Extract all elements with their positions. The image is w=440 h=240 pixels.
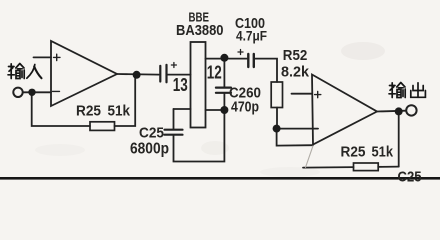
wire IC right pin lower: [206, 109, 225, 111]
junction node F output: [395, 107, 403, 115]
capacitor C25 top lead: [173, 109, 175, 129]
wire op-amp U1 output: [117, 73, 159, 76]
IC U2 BA3880 body: [191, 42, 206, 128]
capacitor C260 plates: [216, 88, 231, 93]
svg-text:R52: R52: [283, 48, 308, 64]
wire op-amp U3 output: [377, 110, 406, 113]
wire minus input op-amp U3: [277, 128, 318, 130]
label 输出 (output) drawn as strokes: [389, 83, 425, 98]
capacitor C25 bottom lead: [174, 110, 225, 162]
capacitor C260 top lead: [223, 59, 225, 87]
junction node B op-amp1 output: [133, 71, 141, 79]
capacitor C100 plates: [248, 54, 254, 67]
wire IC pin12: [206, 58, 225, 60]
op-amp U3 plus sign: [315, 92, 321, 98]
output terminal circle: [406, 105, 416, 115]
char 出: [411, 83, 426, 98]
svg-text:4.7μF: 4.7μF: [236, 28, 267, 44]
op-amp U3: [312, 75, 377, 145]
op-amp U1: [51, 41, 117, 106]
capacitor C260 bottom lead: [223, 93, 225, 110]
junction node A: [28, 89, 35, 96]
op-amp U1 plus sign: [54, 54, 61, 60]
wire IC left pin lower: [174, 108, 191, 110]
svg-text:470p: 470p: [231, 99, 259, 116]
svg-text:6800p: 6800p: [130, 141, 169, 158]
resistor R52 body: [271, 82, 282, 108]
wire R52 to minus node: [276, 108, 278, 129]
faint connector vertex to feedback: [306, 146, 314, 168]
char 入: [27, 65, 42, 79]
svg-text:BA3880: BA3880: [176, 22, 224, 39]
bottom scan border: [0, 177, 440, 180]
input terminal circle: [13, 88, 22, 97]
junction node D C260 bottom: [220, 106, 228, 114]
resistor R25 right body: [354, 163, 379, 171]
wire node to C100: [224, 58, 247, 60]
wire R25 to output node: [115, 75, 136, 126]
label 输入 (input) drawn as strokes: [8, 64, 42, 79]
op-amp U1 minus sign: [53, 90, 60, 92]
op-amp U3 plus input wire: [292, 93, 313, 95]
junction node E minus input: [273, 125, 281, 133]
svg-text:C25: C25: [139, 125, 164, 142]
svg-text:12: 12: [207, 62, 222, 83]
svg-text:51k: 51k: [372, 144, 394, 161]
char 输: [8, 64, 24, 79]
wire feedback node down: [277, 129, 313, 146]
svg-text:R25: R25: [341, 144, 366, 161]
op-amp U1 minus input wire: [23, 91, 51, 93]
capacitor C25 plates: [165, 130, 183, 135]
svg-text:51k: 51k: [108, 103, 131, 120]
svg-text:C25: C25: [398, 169, 422, 185]
capacitor C13 plus sign: [171, 63, 176, 68]
junction node C pin12: [220, 54, 228, 62]
wire C100 to R52: [255, 59, 277, 82]
svg-text:R25: R25: [76, 103, 101, 120]
char 输: [389, 83, 405, 98]
wire feedback left down: [32, 92, 90, 126]
wire C13 to IC pin13: [168, 74, 191, 76]
capacitor C100 plus sign: [238, 50, 243, 55]
resistor R25 left body: [90, 122, 115, 131]
wire R25 right leads: [303, 167, 399, 168]
wire output down: [398, 111, 400, 166]
op-amp U1 plus input wire: [34, 56, 52, 58]
svg-text:8.2k: 8.2k: [281, 64, 310, 81]
svg-text:13: 13: [173, 74, 188, 95]
capacitor C13 plates: [160, 65, 166, 83]
